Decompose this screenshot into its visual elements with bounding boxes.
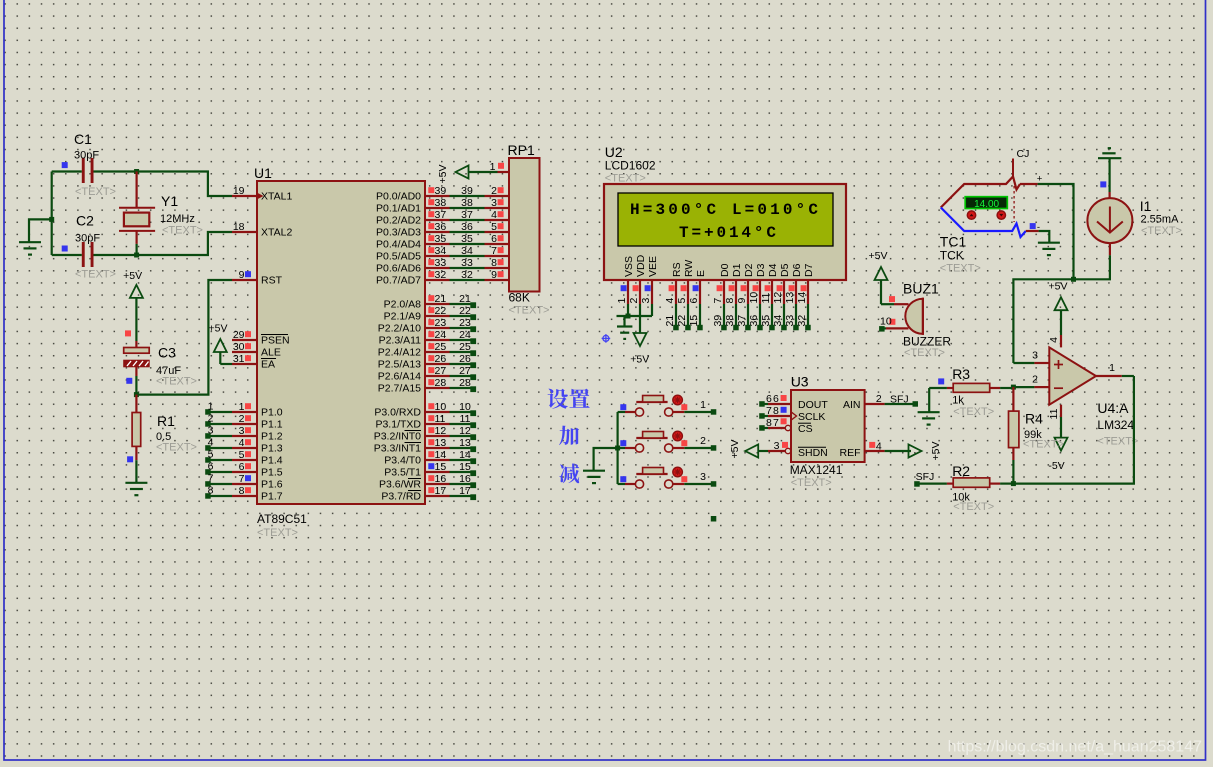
node R2-R4 junction xyxy=(1011,481,1016,486)
wire net 21 to U2 RS xyxy=(664,304,679,330)
svg-text:18: 18 xyxy=(233,221,245,233)
mcu U1 AT89C51 body xyxy=(254,165,425,539)
svg-text:11: 11 xyxy=(1048,408,1060,419)
U3 pin 7 CS wire net 8 xyxy=(759,417,791,431)
svg-text:34: 34 xyxy=(772,315,784,327)
U1 pin 13 P3.3/INT1 xyxy=(374,437,450,455)
power +5V (U4 pin4) xyxy=(1049,280,1068,335)
svg-text:33: 33 xyxy=(784,315,796,327)
svg-text:<TEXT>: <TEXT> xyxy=(605,173,646,185)
svg-text:8: 8 xyxy=(239,485,245,497)
svg-text:LCD1602: LCD1602 xyxy=(605,159,656,173)
state square button 1 right xyxy=(681,404,687,410)
buzzer BUZ1 xyxy=(886,281,951,359)
svg-text:D1: D1 xyxy=(731,263,743,277)
label ADD (chinese) xyxy=(559,426,579,446)
svg-text:26: 26 xyxy=(459,353,471,365)
svg-text:P1.2: P1.2 xyxy=(261,431,283,443)
wire net 1 button xyxy=(684,399,716,415)
svg-text:P3.4/T0: P3.4/T0 xyxy=(384,455,421,467)
wire net 17 P3 stub xyxy=(450,485,477,500)
svg-text:1: 1 xyxy=(239,401,245,413)
svg-text:16: 16 xyxy=(435,473,447,485)
wire net 24 P2 stub xyxy=(450,329,477,344)
wire net 8 to P1.7 xyxy=(205,485,232,499)
ground (R3) xyxy=(918,412,940,424)
svg-text:10: 10 xyxy=(748,292,760,304)
ground (crystal) xyxy=(19,242,41,254)
svg-text:P3.0/RXD: P3.0/RXD xyxy=(374,407,421,419)
wire net 15 to U2 E xyxy=(688,304,703,330)
wire net 33 P0 to RP1 xyxy=(450,257,485,269)
svg-text:<TEXT>: <TEXT> xyxy=(509,305,550,317)
state square C3 top xyxy=(125,330,131,336)
svg-text:<TEXT>: <TEXT> xyxy=(156,441,197,453)
svg-text:P2.6/A14: P2.6/A14 xyxy=(378,371,421,383)
svg-text:RW: RW xyxy=(683,260,695,277)
wire net 35 P0 to RP1 xyxy=(450,233,485,245)
adc U3 MAX1241 body xyxy=(790,374,865,490)
svg-text:2.55mA: 2.55mA xyxy=(1141,214,1180,226)
svg-text:6: 6 xyxy=(239,461,245,473)
op-amp U4:A LM324 xyxy=(1049,347,1138,447)
svg-text:+5V: +5V xyxy=(437,165,449,184)
svg-text:13: 13 xyxy=(784,292,796,304)
svg-text:P2.1/A9: P2.1/A9 xyxy=(384,311,422,323)
wire feedback loop xyxy=(1013,376,1134,484)
U2 pin 12 D5 xyxy=(772,263,791,304)
net stub (unused) xyxy=(711,516,717,522)
svg-text:7: 7 xyxy=(491,245,497,257)
U1 pin 15 P3.5/T1 xyxy=(384,461,449,479)
svg-text:+5V: +5V xyxy=(869,250,888,262)
wire to left ground xyxy=(29,219,52,242)
wire net 2 to P1.1 xyxy=(205,413,232,427)
svg-text:5: 5 xyxy=(491,221,497,233)
svg-text:1: 1 xyxy=(1109,362,1115,374)
svg-text:U1: U1 xyxy=(254,165,272,181)
svg-text:34: 34 xyxy=(435,245,447,257)
svg-text:P0.2/AD2: P0.2/AD2 xyxy=(376,215,421,227)
svg-text:P2.3/A11: P2.3/A11 xyxy=(379,335,422,347)
svg-text:5: 5 xyxy=(239,449,245,461)
svg-text:P3.1/TXD: P3.1/TXD xyxy=(375,419,421,431)
U1 pin 29 PSEN xyxy=(232,329,290,347)
wire net 38 to U2 D1 xyxy=(724,304,739,330)
svg-text:<TEXT>: <TEXT> xyxy=(791,477,832,489)
svg-text:5: 5 xyxy=(676,298,688,304)
state square button 2 right xyxy=(681,440,687,446)
wire TC1 plus to opamp xyxy=(1038,184,1074,279)
wire net 34 P0 to RP1 xyxy=(450,245,485,257)
ground (R1) xyxy=(125,483,147,495)
origin marker xyxy=(602,334,611,343)
svg-text:30pF: 30pF xyxy=(75,233,100,245)
svg-text:RP1: RP1 xyxy=(508,142,535,158)
svg-text:27: 27 xyxy=(435,365,447,377)
svg-text:38: 38 xyxy=(461,197,473,209)
svg-text:9: 9 xyxy=(239,269,245,281)
svg-text:6: 6 xyxy=(208,461,214,473)
node button bus xyxy=(615,446,620,451)
svg-text:14: 14 xyxy=(796,292,808,304)
svg-text:C2: C2 xyxy=(76,213,94,229)
svg-text:SCLK: SCLK xyxy=(798,411,825,423)
svg-text:37: 37 xyxy=(736,315,748,327)
svg-text:8: 8 xyxy=(724,298,736,304)
U4 pin 1 output wire xyxy=(1096,362,1134,376)
node C2-Y1 junction xyxy=(134,253,139,258)
wire C2 left vertical xyxy=(51,172,53,256)
U4 pin 11 stub xyxy=(1048,405,1061,438)
RP1 pin 8 xyxy=(485,257,510,269)
wire R3 left to ground xyxy=(929,388,947,412)
svg-text:<TEXT>: <TEXT> xyxy=(162,225,203,237)
svg-text:26: 26 xyxy=(435,353,447,365)
svg-text:28: 28 xyxy=(435,377,447,389)
svg-text:1: 1 xyxy=(700,399,706,411)
svg-text:7: 7 xyxy=(766,405,772,417)
svg-text:P3.2/INT0: P3.2/INT0 xyxy=(374,431,421,443)
U1 XTAL1 clock mark xyxy=(257,193,264,200)
svg-text:4: 4 xyxy=(491,209,497,221)
svg-text:36: 36 xyxy=(748,315,760,327)
state square C3 bottom xyxy=(126,378,132,384)
svg-text:4: 4 xyxy=(208,437,214,449)
U1 pin 18 XTAL2 xyxy=(232,221,292,239)
U1 pin 16 P3.6/WR xyxy=(379,473,450,491)
svg-text:14: 14 xyxy=(435,449,447,461)
svg-text:H=300°C L=010°C: H=300°C L=010°C xyxy=(630,201,818,219)
svg-text:3: 3 xyxy=(774,440,780,452)
svg-text:D7: D7 xyxy=(803,263,815,277)
U2 pin 9 D2 xyxy=(736,263,755,304)
U4 pin 4 stub xyxy=(1048,335,1061,347)
svg-text:CJ: CJ xyxy=(1017,148,1030,160)
svg-text:D2: D2 xyxy=(743,263,755,277)
svg-text:+5V: +5V xyxy=(209,323,228,335)
svg-text:8: 8 xyxy=(766,417,772,429)
svg-text:LM324: LM324 xyxy=(1097,418,1134,432)
ground (LCD) xyxy=(617,327,632,339)
svg-text:15: 15 xyxy=(435,461,447,473)
svg-text:10: 10 xyxy=(880,316,892,328)
svg-text:TC1: TC1 xyxy=(940,233,967,249)
svg-text:33: 33 xyxy=(435,257,447,269)
svg-text:MAX1241: MAX1241 xyxy=(790,463,843,477)
U2 pin 14 D7 xyxy=(796,263,815,304)
wire net 36 P0 to RP1 xyxy=(450,221,485,233)
state square TC1 minus xyxy=(1030,223,1036,229)
wire net 34 to U2 D5 xyxy=(772,304,787,330)
wire net 6 to P1.5 xyxy=(205,461,232,475)
node C1-C2 ground tee xyxy=(49,217,54,222)
svg-text:P0.4/AD4: P0.4/AD4 xyxy=(376,239,421,251)
svg-text:+5V: +5V xyxy=(729,440,741,459)
wire net 33 to U2 D6 xyxy=(784,304,799,330)
power +5V (LCD VDD) xyxy=(630,304,649,366)
svg-text:D4: D4 xyxy=(767,263,779,277)
U1 pin 26 P2.5/A13 xyxy=(378,353,450,371)
svg-text:12MHz: 12MHz xyxy=(160,213,195,225)
svg-text:3: 3 xyxy=(700,471,706,483)
svg-text:P2.7/A15: P2.7/A15 xyxy=(378,383,421,395)
svg-text:P0.1/AD1: P0.1/AD1 xyxy=(376,203,421,215)
wire RP1 pin1 to +5V xyxy=(468,171,498,173)
U2 pin 4 RS xyxy=(664,262,683,304)
svg-text:10: 10 xyxy=(435,401,447,413)
node C3-R1 junction xyxy=(134,392,139,397)
U1 pin 38 P0.1/AD1 xyxy=(376,197,449,215)
svg-text:21: 21 xyxy=(664,315,676,327)
svg-text:39: 39 xyxy=(435,185,447,197)
svg-text:P3.3/INT1: P3.3/INT1 xyxy=(374,443,421,455)
wire net 39 P0 to RP1 xyxy=(450,185,485,197)
svg-text:<TEXT>: <TEXT> xyxy=(1097,436,1138,448)
wire net 39 to U2 D0 xyxy=(712,304,727,330)
svg-text:R4: R4 xyxy=(1025,411,1043,427)
svg-text:2: 2 xyxy=(876,393,882,405)
wire net 13 P3 stub xyxy=(450,437,477,452)
TC1 up button xyxy=(967,211,975,219)
svg-text:-5V: -5V xyxy=(1048,460,1064,472)
svg-text:37: 37 xyxy=(435,209,447,221)
svg-text:R2: R2 xyxy=(952,463,970,479)
wire net 21 P2 stub xyxy=(450,293,477,308)
svg-text:D0: D0 xyxy=(719,263,731,277)
U1 pin 14 P3.4/T0 xyxy=(384,449,449,467)
svg-text:22: 22 xyxy=(459,305,471,317)
U1 pin 21 P2.0/A8 xyxy=(384,293,450,311)
svg-text:12: 12 xyxy=(435,425,447,437)
svg-text:2: 2 xyxy=(491,185,497,197)
svg-text:32: 32 xyxy=(796,315,808,327)
svg-text:30pF: 30pF xyxy=(74,149,99,161)
state square C2 xyxy=(62,246,68,252)
svg-text:DOUT: DOUT xyxy=(798,399,828,411)
U1 pin 8 P1.7 xyxy=(232,485,283,503)
svg-text:4: 4 xyxy=(876,441,882,453)
power +5V (RST pullup) xyxy=(123,270,143,341)
button S3 xyxy=(618,467,685,488)
svg-text:24: 24 xyxy=(459,329,471,341)
svg-text:25: 25 xyxy=(435,341,447,353)
svg-text:U3: U3 xyxy=(791,374,809,390)
svg-text:39: 39 xyxy=(712,315,724,327)
power -5V (U4 pin11) xyxy=(1048,438,1067,472)
svg-text:35: 35 xyxy=(461,233,473,245)
svg-text:21: 21 xyxy=(435,293,447,305)
wire net 4 to P1.3 xyxy=(205,437,232,451)
node VSS junction xyxy=(626,314,631,319)
svg-text:PSEN: PSEN xyxy=(261,335,290,347)
resistor R2 10k xyxy=(914,463,1013,513)
RP1 pin 3 xyxy=(485,197,510,209)
svg-text:36: 36 xyxy=(461,221,473,233)
svg-text:31: 31 xyxy=(233,353,245,365)
wire net 15 P3 stub xyxy=(450,461,477,476)
svg-text:6: 6 xyxy=(491,233,497,245)
svg-text:<TEXT>: <TEXT> xyxy=(156,375,197,387)
svg-text:TCK: TCK xyxy=(940,249,964,263)
svg-text:5: 5 xyxy=(208,449,214,461)
svg-text:32: 32 xyxy=(435,269,447,281)
wire RST net xyxy=(136,280,232,395)
wire net 22 P2 stub xyxy=(450,305,477,320)
U1 pin 30 ALE xyxy=(232,341,281,359)
resistor R4 99k xyxy=(1009,387,1064,484)
svg-text:R1: R1 xyxy=(157,413,175,429)
svg-text:P1.5: P1.5 xyxy=(261,467,283,479)
wire net 10 P3 stub xyxy=(450,401,477,416)
svg-text:29: 29 xyxy=(233,329,245,341)
svg-text:D3: D3 xyxy=(755,263,767,277)
state square buzzer bottom xyxy=(889,319,895,325)
svg-text:1: 1 xyxy=(208,401,214,413)
svg-text:XTAL1: XTAL1 xyxy=(261,191,292,203)
U1 pin 36 P0.3/AD3 xyxy=(376,221,449,239)
svg-text:8: 8 xyxy=(208,485,214,497)
TC1 down button xyxy=(997,211,1005,219)
svg-text:<TEXT>: <TEXT> xyxy=(953,406,994,418)
svg-text:VEE: VEE xyxy=(647,256,659,277)
svg-text:P1.1: P1.1 xyxy=(261,419,283,431)
state square C1 xyxy=(62,162,68,168)
RP1 pin 2 xyxy=(485,185,510,197)
svg-text:3: 3 xyxy=(239,425,245,437)
svg-text:SHDN: SHDN xyxy=(798,447,828,459)
state square R3 xyxy=(938,378,944,384)
U1 pin 5 P1.4 xyxy=(232,449,283,467)
U2 pin 6 E xyxy=(688,270,707,304)
wire C1 right to XTAL1 xyxy=(94,172,233,197)
capacitor C3 47uF xyxy=(124,341,197,395)
svg-text:VSS: VSS xyxy=(623,256,635,277)
wire net 3 to P1.2 xyxy=(205,425,232,439)
U3 label SHDN xyxy=(798,447,828,459)
svg-text:P2.0/A8: P2.0/A8 xyxy=(384,299,422,311)
svg-text:37: 37 xyxy=(461,209,473,221)
svg-text:Y1: Y1 xyxy=(161,193,178,209)
wire net 12 P3 stub xyxy=(450,425,477,440)
wire net 23 P2 stub xyxy=(450,317,477,332)
svg-text:1: 1 xyxy=(616,298,628,304)
wire net 16 P3 stub xyxy=(450,473,477,488)
svg-text:P1.7: P1.7 xyxy=(261,491,283,503)
wire net 3 button xyxy=(684,471,716,487)
svg-text:27: 27 xyxy=(459,365,471,377)
thermocouple TC1 xyxy=(940,159,1026,275)
svg-text:12: 12 xyxy=(459,425,471,437)
wire net 14 P3 stub xyxy=(450,449,477,464)
state square R1 xyxy=(127,456,133,462)
svg-text:21: 21 xyxy=(459,293,471,305)
state square button 3 right xyxy=(681,476,687,482)
svg-text:R3: R3 xyxy=(952,366,970,382)
svg-text:2: 2 xyxy=(239,413,245,425)
svg-text:7: 7 xyxy=(712,298,724,304)
svg-text:D6: D6 xyxy=(791,263,803,277)
svg-text:28: 28 xyxy=(459,377,471,389)
U4 pin 2 wire xyxy=(1013,374,1049,388)
U1 pin 10 P3.0/RXD xyxy=(374,401,449,419)
wire TC1 minus to ground xyxy=(1039,231,1050,243)
svg-text:2: 2 xyxy=(700,435,706,447)
U1 pin 9 RST xyxy=(232,269,283,287)
svg-text:36: 36 xyxy=(435,221,447,233)
svg-text:SFJ: SFJ xyxy=(916,471,935,483)
svg-text:SFJ: SFJ xyxy=(890,394,909,406)
svg-text:P0.3/AD3: P0.3/AD3 xyxy=(376,227,421,239)
svg-text:13: 13 xyxy=(459,437,471,449)
node inverting input junction xyxy=(1011,385,1016,390)
U1 pin 7 P1.6 xyxy=(232,473,283,491)
svg-text:12: 12 xyxy=(772,292,784,304)
RP1 pin 6 xyxy=(485,233,510,245)
U1 pin 6 P1.5 xyxy=(232,461,283,479)
svg-text:<TEXT>: <TEXT> xyxy=(1023,439,1064,451)
U2 pin 2 VDD xyxy=(628,254,647,304)
label SUB (chinese) xyxy=(559,463,579,483)
wire net 5 to P1.4 xyxy=(205,449,232,463)
svg-text:+: + xyxy=(1037,174,1043,185)
ground (I1 top) xyxy=(1098,148,1121,158)
U1 pin 19 XTAL1 xyxy=(232,185,292,203)
svg-text:3: 3 xyxy=(491,197,497,209)
power +5V (RP1) xyxy=(437,165,469,184)
svg-text:22: 22 xyxy=(435,305,447,317)
U1 pin 37 P0.2/AD2 xyxy=(376,209,449,227)
svg-text:P1.4: P1.4 xyxy=(261,455,283,467)
svg-text:17: 17 xyxy=(459,485,471,497)
svg-text:9: 9 xyxy=(736,298,748,304)
svg-text:4: 4 xyxy=(1048,337,1060,343)
svg-text:P0.0/AD0: P0.0/AD0 xyxy=(376,191,421,203)
wire net 35 to U2 D4 xyxy=(760,304,775,330)
svg-text:<TEXT>: <TEXT> xyxy=(257,527,298,539)
svg-text:23: 23 xyxy=(435,317,447,329)
U1 pin 34 P0.5/AD5 xyxy=(376,245,449,263)
wire bus to ground xyxy=(594,448,618,471)
svg-text:35: 35 xyxy=(435,233,447,245)
U3 label CS xyxy=(798,423,813,435)
resistor R3 1k xyxy=(947,366,1014,418)
U1 pin 23 P2.2/A10 xyxy=(378,317,450,335)
capacitor C2 xyxy=(75,213,116,281)
svg-text:AT89C51: AT89C51 xyxy=(257,512,307,526)
U1 pin 11 P3.1/TXD xyxy=(375,413,449,431)
U1 pin 35 P0.4/AD4 xyxy=(376,233,449,251)
svg-text:14.00: 14.00 xyxy=(974,199,999,210)
svg-text:P0.6/AD6: P0.6/AD6 xyxy=(376,263,421,275)
U3 pin 3 SHDN wire xyxy=(759,440,791,454)
svg-text:P2.2/A10: P2.2/A10 xyxy=(378,323,421,335)
svg-text:C3: C3 xyxy=(158,345,176,361)
wire net 25 P2 stub xyxy=(450,341,477,356)
svg-text:P2.4/A12: P2.4/A12 xyxy=(378,347,421,359)
U3 pin 2 AIN wire net SFJ xyxy=(865,393,918,407)
U1 pin 17 P3.7/RD xyxy=(381,485,449,503)
svg-text:+5V: +5V xyxy=(123,270,142,282)
U3 pin 4 REF wire xyxy=(865,441,911,453)
svg-text:7: 7 xyxy=(208,473,214,485)
svg-text:22: 22 xyxy=(676,315,688,327)
resistor R1 0.5 xyxy=(132,395,197,483)
svg-text:3: 3 xyxy=(640,298,652,304)
wire net 32 P0 to RP1 xyxy=(450,269,485,281)
svg-text:<TEXT>: <TEXT> xyxy=(1141,225,1182,237)
state square button 1 left xyxy=(620,404,626,410)
